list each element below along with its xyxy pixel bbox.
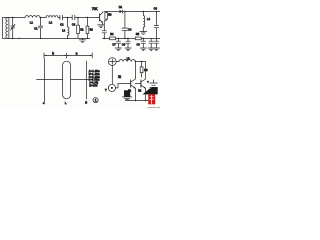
ground (C8)	[125, 48, 131, 51]
resistor R5	[135, 37, 141, 40]
transistor Q1	[99, 14, 101, 21]
svg-text:70K: 70K	[92, 7, 99, 11]
wire mid rail 3	[103, 37, 161, 39]
watermark seal	[148, 94, 155, 104]
resistor R2	[86, 18, 88, 39]
jack J1	[108, 58, 116, 66]
dimension line	[44, 53, 92, 58]
diode D1	[120, 10, 123, 13]
svg-text:C6: C6	[154, 7, 158, 11]
node (antenna bottom)	[12, 38, 14, 40]
capacitor C2	[60, 15, 63, 20]
circled 1	[93, 98, 98, 103]
capacitor C9	[141, 38, 145, 48]
ground (main rail)	[79, 38, 85, 42]
wire collector drop Q3	[145, 62, 147, 79]
capacitor C11	[154, 38, 158, 48]
wire top rail 1	[3, 17, 100, 19]
resistor R3	[104, 12, 106, 31]
coil body (obround)	[63, 61, 71, 99]
former left edge	[43, 59, 45, 104]
capacitor C5	[102, 31, 106, 39]
transistor Q3	[140, 80, 142, 87]
node (antenna top)	[12, 17, 14, 19]
ground (L4)	[140, 32, 147, 35]
capacitor C3	[72, 15, 75, 20]
wire Q3 emitter down	[145, 88, 147, 100]
svg-text:(1): (1)	[118, 75, 121, 79]
svg-text:N=350: N=350	[89, 84, 98, 87]
node E	[143, 11, 145, 13]
svg-text:C3: C3	[72, 23, 76, 27]
capacitor C1	[38, 18, 43, 39]
ground (C9)	[140, 48, 146, 51]
former right edge	[86, 61, 88, 99]
inductor L4	[143, 12, 145, 32]
wire speaker to Q2 base	[115, 84, 130, 88]
svg-text:L2: L2	[49, 20, 53, 24]
node C	[77, 17, 79, 19]
watermark wedge	[143, 88, 158, 95]
resistor R4	[110, 37, 116, 40]
ground (blob)	[122, 97, 131, 100]
capacitor C8	[126, 38, 130, 48]
svg-text:www.dzsc.com: www.dzsc.com	[148, 107, 160, 109]
wire ground rail	[3, 37, 90, 39]
wire	[135, 61, 145, 63]
wire base link	[135, 83, 141, 85]
capacitor C6	[154, 12, 158, 39]
antenna loop left edge	[2, 18, 4, 39]
battery GB	[150, 80, 158, 96]
node D	[124, 11, 126, 13]
svg-text:D1: D1	[119, 5, 123, 9]
svg-text:1: 1	[95, 99, 97, 103]
node F / label C6	[156, 11, 158, 13]
resistor R6	[141, 62, 143, 78]
node	[19, 38, 20, 39]
inductor L3	[68, 18, 70, 39]
wire Q2 emitter down	[134, 88, 136, 100]
former mid line	[37, 79, 90, 81]
capacitor CE (blob)	[124, 90, 130, 96]
antenna coil B1	[6, 18, 8, 39]
ground (Q1 emitter)	[98, 25, 104, 28]
capacitor C7	[116, 38, 120, 48]
svg-text:C2: C2	[60, 23, 64, 27]
svg-text:R3: R3	[108, 13, 112, 17]
transistor Q2	[130, 80, 132, 87]
wire top rail 2	[104, 11, 160, 13]
wire collector drop Q2	[134, 62, 136, 79]
wire	[116, 61, 119, 63]
svg-text:a: a	[76, 52, 78, 56]
svg-text:C1: C1	[34, 26, 38, 30]
node B	[67, 17, 69, 19]
svg-text:C4: C4	[128, 28, 132, 32]
node A	[40, 17, 42, 19]
ground (C11)	[153, 48, 159, 51]
inductor L5	[119, 60, 135, 62]
ground (C7)	[115, 48, 121, 51]
tuning capacitor CT	[11, 18, 16, 39]
inductor L2	[46, 16, 58, 18]
wire bottom	[125, 100, 152, 102]
speaker Y	[108, 84, 115, 91]
inductor L1	[25, 16, 40, 18]
ground (C10)	[148, 48, 154, 51]
resistor R1	[77, 18, 79, 39]
capacitor C10	[149, 38, 153, 48]
svg-text:b: b	[52, 52, 54, 56]
capacitor C4	[122, 12, 128, 39]
wire jack to speaker	[111, 66, 113, 85]
svg-text:B: B	[85, 101, 87, 105]
svg-text:L1: L1	[30, 20, 34, 24]
